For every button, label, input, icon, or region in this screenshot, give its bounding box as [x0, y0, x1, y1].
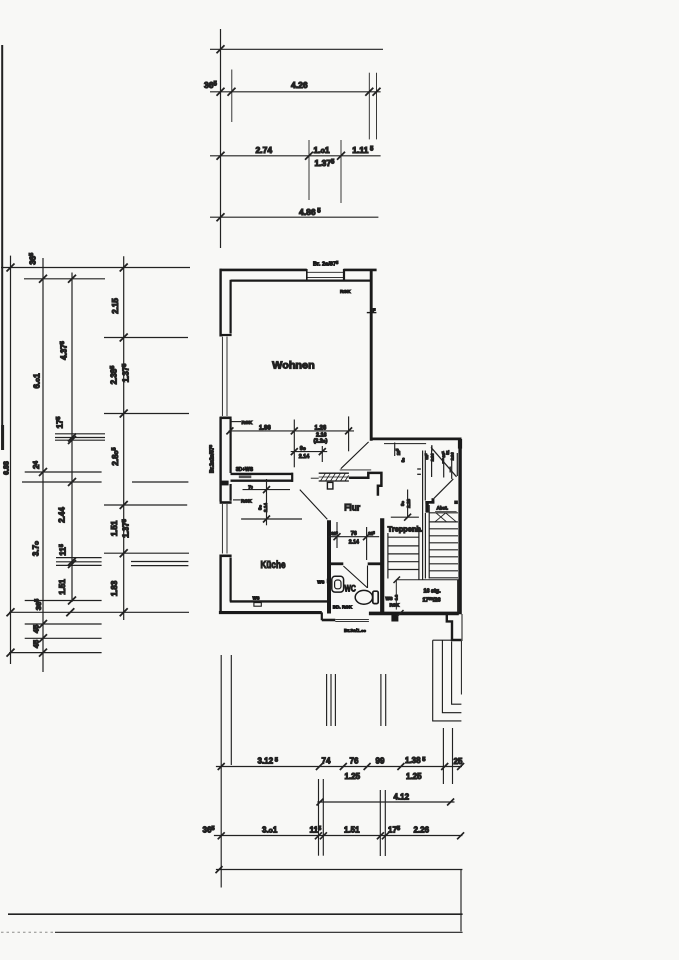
right segment lines y=561.5,565.6 — [131, 561, 188, 563]
svg-text:Br.2a2a/875: Br.2a2a/875 — [208, 444, 216, 473]
tick chain3 y=278.8 — [68, 275, 76, 283]
tie line y=278.8 — [24, 278, 105, 280]
tick at 407.6 — [404, 514, 411, 521]
witness line x=341 lower — [340, 140, 342, 203]
small dim 17.5 triple lines y=433.8,437.5,440 — [55, 433, 105, 435]
toilet cistern — [373, 591, 378, 603]
ticks main line — [218, 832, 225, 839]
tie line y=267.5 — [1, 267, 190, 269]
tick chain3 y=482 — [68, 478, 76, 486]
tick chain3 y=600.5 — [68, 597, 76, 605]
shelf line y=512.8 — [429, 512, 458, 514]
thin line above pier y=469.9 — [340, 469, 372, 471]
shelf X brace line 3 — [436, 513, 447, 522]
upper flight tread x=443.7 — [443, 451, 445, 478]
tie line y=652.6 — [9, 652, 102, 654]
tick at 366.5 — [363, 533, 370, 540]
svg-text:Flur: Flur — [344, 503, 360, 514]
svg-text:51: 51 — [446, 450, 450, 454]
svg-text:2.44: 2.44 — [57, 507, 66, 523]
svg-text:45: 45 — [32, 640, 41, 648]
svg-text:Treppenh.: Treppenh. — [388, 524, 423, 533]
entrance nested step outer — [433, 640, 462, 721]
tick x=322.3 line2 — [319, 448, 326, 455]
tick x=294.3 — [291, 427, 298, 434]
dim line: 4.86 row — [210, 216, 378, 218]
WC top wall right segment — [368, 562, 381, 565]
tie line y=612.3 full — [9, 611, 189, 613]
witness line x=376.5 — [376, 73, 378, 140]
entrance nested step inner — [452, 642, 462, 705]
black pier above Abst — [432, 498, 435, 503]
tick chain1 y=612.3 — [7, 608, 15, 616]
Abst corner bracket horizontal — [425, 501, 434, 504]
svg-text:2.74: 2.74 — [256, 145, 273, 155]
svg-text:1.51: 1.51 — [344, 825, 360, 834]
Flur vertical dim witness x=407.6 — [407, 490, 409, 518]
tick at 337 — [334, 533, 341, 540]
svg-text:74: 74 — [322, 757, 331, 766]
low long line y=869.6 — [216, 869, 463, 871]
Kueche vertical dim witness x=266.5 — [266, 479, 268, 525]
tick x=294.3 line2 — [291, 448, 298, 455]
upper flight tread x=451.7 — [451, 452, 453, 479]
witness x=366.6 — [366, 527, 368, 560]
entrance nested step middle — [442, 640, 461, 713]
page bottom line 2 faint left — [1, 931, 55, 933]
tick chain2 y=624 — [39, 620, 47, 628]
small dim 11.5 triple lines y=557.6,561.8,565.4 — [56, 557, 102, 559]
dim line: overall top line y=49 — [210, 48, 383, 50]
svg-text:WS: WS — [386, 596, 393, 601]
tick on diagonal at 450.2 — [449, 467, 451, 473]
left wall outer segment 2 — [219, 417, 221, 502]
tick at x=220.5 — [217, 213, 225, 221]
top wall of Flur/Treppenhaus — [371, 437, 461, 440]
svg-text:2.15: 2.15 — [111, 298, 120, 314]
svg-text:45: 45 — [32, 625, 41, 633]
toilet bowl — [355, 590, 372, 604]
tick chain2 y=278.8 — [39, 275, 47, 283]
witness line x=309 lower — [308, 140, 310, 200]
svg-text:2.14: 2.14 — [263, 503, 268, 512]
witness x=294.3 — [293, 420, 295, 468]
svg-text:RGK: RGK — [241, 498, 252, 504]
partition Wohnen/Kueche top line — [231, 473, 293, 475]
tick at box bottom-left corner — [397, 610, 404, 617]
upper flight tread x=425.3 — [424, 451, 426, 501]
page bottom line 1 — [8, 913, 463, 915]
svg-text:1.26: 1.26 — [315, 425, 327, 431]
left flight left edge — [387, 533, 389, 579]
bottom wall outer left — [219, 611, 322, 614]
WC door dim line y=536.7 — [329, 536, 380, 538]
svg-text:4.26: 4.26 — [291, 80, 308, 90]
tie line y=472 — [25, 471, 102, 473]
small WS box on wall — [327, 579, 331, 584]
tick chain4 y=337.5 — [120, 334, 128, 342]
WS box below kitchen bottom wall — [254, 603, 261, 607]
svg-text:9o: 9o — [401, 457, 406, 462]
tick at left end low line — [216, 866, 223, 873]
svg-text:3.7o: 3.7o — [32, 541, 41, 556]
tick chain4 y=413.5 — [120, 410, 128, 418]
partition Wohnen/Kueche bottom line — [231, 480, 293, 482]
top wall inner line — [231, 280, 371, 282]
svg-text:WS: WS — [317, 580, 324, 585]
left wall outer segment 3 — [219, 555, 221, 614]
main bottom dim line y=835.8 — [214, 835, 463, 837]
Abst right pier — [454, 501, 458, 505]
shelf line y=521.9 — [429, 521, 458, 523]
witness pair x=380.3,385.3 lower — [379, 790, 381, 856]
tick on diagonal at 442.7 — [442, 458, 444, 464]
tick at 266.5 y=489.6 — [263, 486, 270, 493]
axis bottom vertical continues — [220, 868, 222, 888]
svg-text:(2.2o): (2.2o) — [314, 438, 328, 444]
svg-text:25: 25 — [454, 757, 463, 766]
tick chain4 y=267.5 — [120, 264, 128, 272]
svg-text:99: 99 — [376, 757, 385, 766]
tick on top line at axis — [217, 45, 225, 53]
witness x=394.7 upper — [394, 443, 396, 457]
left wall inner segment 1 — [230, 280, 232, 334]
witness pair below plan x=221.2 — [220, 655, 222, 868]
tie line y=600.5 — [25, 600, 102, 602]
Wohnen right wall — [370, 270, 373, 441]
tick at x=369.3 — [365, 88, 373, 96]
svg-text:76: 76 — [350, 757, 359, 766]
bottom-right step wall path — [447, 613, 462, 640]
right flight treads — [429, 528, 458, 530]
page bottom line 2 — [55, 931, 463, 933]
upper flight tread x=457.3 — [456, 453, 458, 476]
svg-text:1.51: 1.51 — [110, 520, 119, 536]
left flight right edge — [418, 528, 420, 580]
svg-text:3.o1: 3.o1 — [262, 825, 278, 834]
page edge thicker lower part — [1, 425, 4, 450]
tick x=348.6 — [345, 427, 352, 434]
kitchen inner bottom wall — [230, 600, 329, 602]
svg-text:WS: WS — [253, 596, 260, 601]
stairwell right wall — [458, 439, 461, 614]
left flight treads — [388, 536, 419, 538]
chain line 1 x=10.5 — [10, 256, 12, 664]
svg-text:6.88: 6.88 — [4, 461, 11, 475]
inner thin line under top wall — [384, 443, 426, 445]
washbasin outer — [332, 576, 344, 592]
dim line: 36.5 / 4.26 row — [210, 91, 381, 93]
svg-text:6.o1: 6.o1 — [32, 373, 41, 389]
black pier top-right corner — [458, 439, 462, 449]
tick at x=231.5 — [228, 88, 236, 96]
tick chain2 y=652.6 — [39, 649, 47, 657]
Wohnen dim line 2 y=451.6 — [291, 451, 328, 453]
left wall inner segment 2 — [230, 419, 232, 473]
svg-text:BD. RGK: BD. RGK — [333, 605, 353, 610]
tick chain1 y=267.5 — [7, 264, 15, 272]
witness pair x=443.4,452.5 — [442, 728, 444, 784]
svg-text:9o: 9o — [400, 500, 405, 506]
right flight center line — [428, 505, 430, 579]
Wohnen window top jamb — [220, 334, 232, 336]
page edge thick vertical line — [1, 45, 3, 450]
door pier Flur/Treppenhaus — [349, 473, 382, 496]
Flur dim tick line y=517.2 — [391, 516, 419, 518]
svg-text:Abst.: Abst. — [437, 505, 448, 510]
witness x=348.6 — [348, 416, 350, 451]
bottom wall under WC and stairwell — [369, 612, 459, 616]
small box below heater band — [327, 482, 333, 489]
svg-text:16 stg.: 16 stg. — [424, 589, 442, 595]
tick chain3 y=612.3 — [66, 608, 74, 616]
double tick chain3 y=437 — [68, 434, 76, 442]
Wohnen window thin lines — [221, 337, 223, 417]
tie line y=505 — [104, 504, 187, 506]
svg-text:WC: WC — [344, 583, 356, 593]
Kueche dim tick line y=519 — [241, 518, 302, 520]
svg-text:1.25: 1.25 — [406, 772, 422, 781]
Kueche window bottom jamb — [220, 554, 232, 557]
svg-text:9o: 9o — [258, 504, 263, 510]
svg-text:Br. 2a/875: Br. 2a/875 — [313, 260, 339, 268]
left wall outer segment 1 (Wohnen upper) — [219, 269, 221, 337]
witness pair x=380.9,385.7 — [380, 674, 382, 726]
svg-text:2.14: 2.14 — [451, 452, 455, 460]
Wohnen window bottom jamb — [220, 416, 232, 419]
bottom wall jog vertical — [321, 612, 323, 620]
dim line 4.12 y=802 — [317, 801, 454, 803]
chain line 2 x=43 — [42, 258, 44, 672]
chain line 3 x=72 — [71, 273, 73, 603]
witness x=231.3 — [230, 655, 232, 765]
tie line y=337.5 — [104, 337, 188, 339]
thin right edge below wall — [461, 614, 463, 641]
svg-text:4.12: 4.12 — [394, 793, 410, 802]
svg-text:2.14: 2.14 — [430, 453, 434, 461]
Kueche dim tick line y=489.6 — [243, 489, 291, 491]
svg-text:F: F — [373, 308, 376, 313]
svg-text:Wohnen: Wohnen — [272, 360, 315, 372]
tick chain4 y=612.3 — [120, 608, 128, 616]
svg-text:RGK: RGK — [390, 603, 401, 608]
bottom wall lower lip — [322, 619, 336, 622]
tick at box top-left corner — [394, 577, 401, 584]
bottom opening thin lines Br.3a — [335, 618, 369, 620]
16stg box top — [396, 579, 458, 581]
left wall inner segment 4 — [230, 558, 232, 602]
svg-text:Küche: Küche — [261, 560, 286, 571]
chain line 4 x=123.7 — [123, 256, 125, 620]
tick at x=376.5 — [373, 88, 381, 96]
heater hatched band top — [319, 472, 349, 474]
tick chain2 y=638.3 — [39, 634, 47, 642]
witness x=337 — [336, 522, 338, 548]
winder diagonal A — [431, 447, 457, 477]
top wall outer left segment — [220, 269, 307, 272]
svg-text:1.83: 1.83 — [110, 580, 119, 596]
heater hatched band bottom — [319, 480, 349, 482]
tick at x=341 — [337, 152, 345, 160]
diagonal chamfer wall Wohnen corner to Flur — [341, 442, 369, 469]
left wall inner segment 3 (Kueche upper) — [230, 484, 232, 501]
washbasin inner — [335, 580, 341, 589]
16stg box right thick — [457, 580, 459, 612]
top window thin lines — [307, 271, 344, 273]
tick chain1 y=652.6 — [7, 649, 15, 657]
black step below WC wall — [391, 614, 398, 622]
axis vertical line (top dimension block) — [220, 29, 222, 248]
svg-text:2.26: 2.26 — [414, 825, 430, 834]
WC door leaf vertical — [367, 566, 369, 589]
Abst underline — [435, 510, 457, 512]
RGK label wohnen window with arrow — [232, 421, 242, 423]
svg-text:1.86: 1.86 — [259, 425, 271, 431]
svg-text:1.25: 1.25 — [345, 772, 361, 781]
witness pair x=318.5,323.3 lower — [318, 779, 320, 856]
Abst corner bracket vertical — [425, 501, 428, 513]
witness line x=369.3 — [368, 73, 370, 140]
dim line 1 y=766.5 — [216, 766, 462, 768]
tick at x=220.5 — [217, 152, 225, 160]
RGK label kueche with arrow — [233, 499, 241, 501]
svg-text:2.14: 2.14 — [349, 540, 359, 546]
heater band hatch — [321, 473, 349, 481]
heater band mid line — [319, 476, 349, 478]
WC top wall left segment — [330, 562, 343, 565]
tick at 266.5 y=519 — [263, 516, 270, 523]
tick on diagonal at 431.8 — [431, 445, 433, 451]
WC/Treppenhaus wall — [380, 518, 384, 613]
partition end cap — [291, 473, 293, 482]
entrance right edge — [460, 641, 462, 695]
Kueche window thin lines — [221, 504, 223, 554]
tick at x=309 — [305, 152, 313, 160]
16stg box left — [395, 580, 397, 610]
shelf X brace line 2 — [446, 513, 457, 522]
tie line y=553.2 — [104, 552, 189, 554]
WC door swing diagonal — [343, 566, 367, 588]
top window jamb right — [343, 269, 345, 281]
ticks on dim line 1 — [218, 763, 225, 770]
witness triple x=326.6,331,335.4 — [326, 674, 328, 726]
Kueche door leaf diagonal — [300, 490, 328, 520]
tick at x=220.5 — [217, 88, 225, 96]
Wohnen dim line y=430.9 — [229, 430, 354, 432]
tie line y=624 — [25, 623, 102, 625]
tick x=229.9 — [226, 427, 233, 434]
ticks 4.12 line — [317, 799, 324, 806]
witness x=322.3 short — [321, 446, 323, 462]
svg-text:76: 76 — [351, 531, 357, 537]
F mark on right wall — [367, 312, 377, 314]
double tick chain3 y=561.5 — [68, 558, 76, 566]
tick chain4 y=505 — [120, 501, 128, 509]
svg-text:3D+WS: 3D+WS — [236, 467, 254, 473]
dim line: 2.74 / 1.o1 / 1.11 row — [210, 155, 381, 157]
top window jamb left — [306, 269, 308, 281]
stairwell well edge vertical — [422, 451, 424, 580]
top wall outer right segment — [344, 269, 377, 272]
left dash pair near stairwell entry — [417, 468, 421, 470]
svg-text:RGK: RGK — [340, 289, 351, 295]
tie segment y=482 right part — [132, 481, 188, 483]
svg-text:2.18: 2.18 — [406, 499, 411, 508]
tie line y=482 — [22, 481, 102, 483]
Kueche window top jamb — [220, 501, 232, 504]
right edge vertical lower — [460, 870, 462, 932]
shelf X brace line 1 — [435, 513, 446, 522]
winder diagonal B — [434, 479, 453, 498]
tie line y=638.3 — [25, 637, 102, 639]
svg-text:9o: 9o — [300, 446, 306, 452]
upper flight tread x=431.6 — [431, 451, 433, 478]
tie line y=413.5 — [104, 413, 189, 415]
svg-text:RGK: RGK — [242, 420, 253, 426]
tick chain4 y=553.2 — [120, 549, 128, 557]
svg-text:1.51: 1.51 — [58, 579, 67, 595]
Kueche/WC wall — [327, 520, 331, 613]
svg-text:76: 76 — [248, 484, 253, 489]
tick chain2 y=472 — [39, 468, 47, 476]
thin line left of heater band — [311, 477, 319, 479]
entrance step top line — [433, 639, 452, 641]
tiny label inside partition — [239, 476, 252, 479]
corner blob at partition junction — [220, 481, 229, 486]
svg-text:2.14: 2.14 — [299, 454, 310, 460]
left edge line of right flight — [424, 513, 426, 579]
witness line x=231.8 — [231, 70, 233, 123]
